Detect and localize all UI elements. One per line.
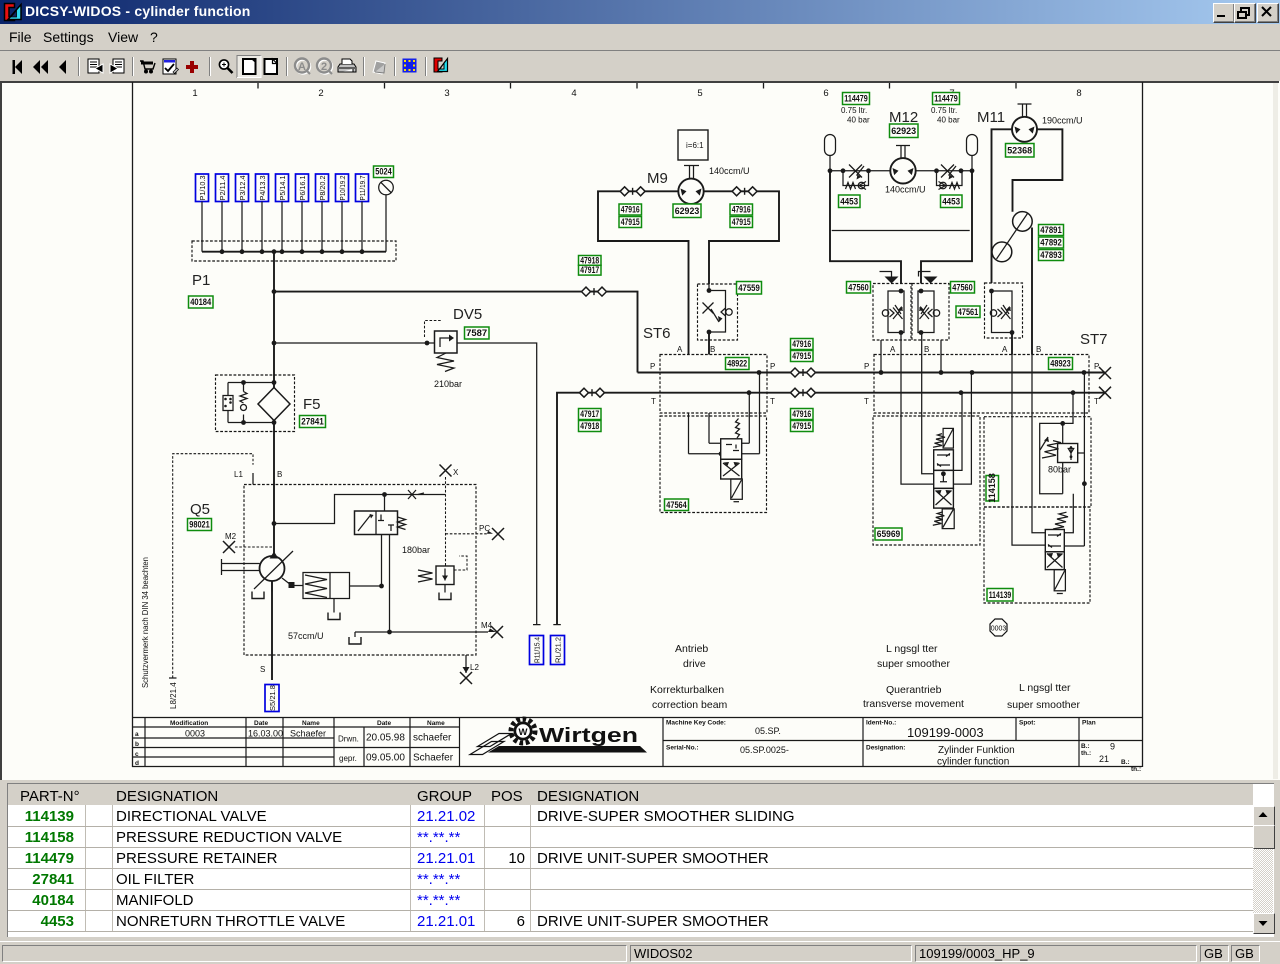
svg-text:d: d xyxy=(135,760,139,767)
directional valve 114139 xyxy=(984,355,1090,604)
port label P6/16.1 xyxy=(296,174,309,252)
solenoid xyxy=(731,479,743,499)
svg-text:80bar: 80bar xyxy=(1048,465,1071,475)
svg-text:6: 6 xyxy=(823,88,828,99)
check-throttle valve 47559 xyxy=(698,282,762,341)
svg-text:P1/10.3: P1/10.3 xyxy=(198,176,207,201)
svg-text:47893: 47893 xyxy=(1040,250,1062,260)
svg-text:47918: 47918 xyxy=(580,421,599,431)
nav prev2 xyxy=(33,60,40,74)
svg-text:Zylinder Funktion: Zylinder Funktion xyxy=(938,745,1015,756)
spring xyxy=(1053,512,1068,529)
svg-text:114479: 114479 xyxy=(934,94,958,104)
wire DV5 drain R11/15.4 xyxy=(457,343,544,665)
svg-text:P: P xyxy=(864,362,869,371)
spring xyxy=(736,419,740,439)
svg-text:48922: 48922 xyxy=(727,359,747,369)
svg-text:47560: 47560 xyxy=(952,282,973,292)
coupler 47916/47915 right xyxy=(732,187,757,196)
svg-text:Date: Date xyxy=(377,720,391,727)
svg-text:L ngsgl tter: L ngsgl tter xyxy=(1019,682,1071,694)
svg-text:P8/20.2: P8/20.2 xyxy=(318,176,327,201)
svg-text:47918: 47918 xyxy=(580,255,599,265)
wire pump feed vertical xyxy=(273,252,275,556)
svg-text:20.05.98: 20.05.98 xyxy=(366,733,405,744)
svg-text:210bar: 210bar xyxy=(434,379,462,389)
wire M9 A loop xyxy=(598,191,689,354)
function labels xyxy=(650,643,1080,711)
svg-text:P4/13.3: P4/13.3 xyxy=(258,176,267,201)
check-throttle 47560 left xyxy=(847,272,912,341)
svg-text:Plan: Plan xyxy=(1082,720,1096,727)
svg-text:M9: M9 xyxy=(647,170,668,187)
svg-text:47917: 47917 xyxy=(580,265,599,275)
svg-text:super smoother: super smoother xyxy=(1007,699,1080,711)
toolbar xyxy=(0,51,1280,81)
svg-text:Spot:: Spot: xyxy=(1019,720,1036,727)
column lines xyxy=(85,805,86,932)
svg-text:L1: L1 xyxy=(234,470,243,479)
motor M12 xyxy=(830,109,972,195)
check-throttle 47561 xyxy=(956,283,1023,355)
connection wires xyxy=(689,373,760,454)
svg-text:47559: 47559 xyxy=(738,283,760,293)
svg-text:Schutzvermerk nach DIN 34 beac: Schutzvermerk nach DIN 34 beachten xyxy=(140,557,150,688)
diagram canvas xyxy=(0,81,1280,780)
svg-text:1: 1 xyxy=(192,88,197,99)
svg-text:P: P xyxy=(770,362,775,371)
svg-text:47915: 47915 xyxy=(621,217,640,227)
svg-text:B: B xyxy=(924,345,929,354)
svg-text:B.:: B.: xyxy=(1081,743,1090,750)
svg-text:5: 5 xyxy=(697,88,702,99)
svg-text:62923: 62923 xyxy=(675,206,700,216)
svg-text:L2: L2 xyxy=(470,663,479,672)
svg-text:P3/12.4: P3/12.4 xyxy=(238,176,247,201)
svg-text:RL/21.2: RL/21.2 xyxy=(553,637,562,663)
svg-text:140ccm/U: 140ccm/U xyxy=(709,166,750,176)
svg-text:Serial-No.:: Serial-No.: xyxy=(666,745,699,752)
svg-text:4453: 4453 xyxy=(840,197,858,207)
sheet frame xyxy=(133,82,1143,767)
svg-text:16.03.00: 16.03.00 xyxy=(248,729,283,739)
wire M11 right xyxy=(1013,129,1063,212)
svg-text:0.75 ltr.: 0.75 ltr. xyxy=(931,106,957,115)
title block xyxy=(132,718,1142,767)
svg-text:schaefer: schaefer xyxy=(413,733,452,744)
page 2 xyxy=(265,59,278,74)
svg-text:A: A xyxy=(890,345,896,354)
svg-text:T: T xyxy=(864,397,869,406)
blue dotted square xyxy=(403,59,417,73)
accumulator 114479 right xyxy=(931,93,978,171)
accumulator 114479 left xyxy=(825,93,871,171)
svg-text:X: X xyxy=(453,468,459,477)
connection wires xyxy=(901,333,934,485)
valve body xyxy=(721,439,742,460)
svg-text:190ccm/U: 190ccm/U xyxy=(1042,116,1083,126)
svg-text:L8/21.4: L8/21.4 xyxy=(169,682,178,709)
menu bar xyxy=(0,24,1280,51)
svg-text:Date: Date xyxy=(254,720,268,727)
svg-text:40 bar: 40 bar xyxy=(937,116,960,125)
wire M9 B loop xyxy=(704,191,779,284)
svg-text:P1: P1 xyxy=(192,272,210,289)
svg-text:47891: 47891 xyxy=(1040,225,1062,235)
svg-text:B: B xyxy=(277,470,282,479)
svg-text:A: A xyxy=(677,345,683,354)
valve DV5 pressure relief xyxy=(272,306,489,389)
svg-text:M2: M2 xyxy=(225,532,237,541)
svg-text:47916: 47916 xyxy=(792,409,811,419)
svg-text:Designation:: Designation: xyxy=(866,745,905,752)
svg-text:Q5: Q5 xyxy=(190,501,210,518)
svg-text:S: S xyxy=(260,665,265,674)
dicsy logo small xyxy=(434,58,448,72)
filter F5 xyxy=(216,375,326,432)
svg-text:40 bar: 40 bar xyxy=(847,116,870,125)
port label P5/14.1 xyxy=(276,174,289,252)
svg-text:P5/14.1: P5/14.1 xyxy=(278,176,287,201)
svg-text:Querantrieb: Querantrieb xyxy=(886,684,942,696)
rows xyxy=(8,826,1253,827)
svg-text:P: P xyxy=(1094,362,1099,371)
svg-text:05.SP.0025-: 05.SP.0025- xyxy=(740,745,789,755)
doc back xyxy=(88,59,103,73)
throttle check valve 4453 right xyxy=(934,165,974,208)
svg-text:47915: 47915 xyxy=(792,351,811,361)
parts table xyxy=(0,780,1280,941)
svg-text:98021: 98021 xyxy=(189,520,210,530)
status bar xyxy=(0,941,1280,964)
svg-text:drive: drive xyxy=(683,658,706,670)
couplers right of ST6 47916/47915 xyxy=(791,339,816,432)
svg-text:48923: 48923 xyxy=(1050,359,1071,369)
svg-text:114479: 114479 xyxy=(844,94,868,104)
cable drum rollers xyxy=(1013,212,1033,232)
swash plate actuator xyxy=(282,578,291,585)
svg-text:52368: 52368 xyxy=(1007,146,1032,156)
pump Q5 xyxy=(188,465,505,712)
nav first xyxy=(13,60,16,74)
checklist xyxy=(163,59,179,74)
doc fwd xyxy=(110,59,124,73)
svg-text:47915: 47915 xyxy=(792,421,811,431)
valve outlet lines xyxy=(350,535,382,587)
svg-text:P: P xyxy=(650,362,655,371)
svg-text:PC: PC xyxy=(479,524,490,533)
pump case drain tank xyxy=(252,592,264,599)
svg-text:th.:: th.: xyxy=(1131,766,1141,773)
label P1 40184 xyxy=(189,272,214,308)
svg-text:M11: M11 xyxy=(977,109,1005,126)
port label P11/19.7 xyxy=(356,174,369,252)
svg-text:T: T xyxy=(1094,397,1099,406)
svg-text:0003: 0003 xyxy=(991,626,1007,633)
revision octagon 0003 xyxy=(990,619,1007,636)
svg-text:Name: Name xyxy=(302,720,320,727)
control valve 180bar xyxy=(355,511,398,535)
svg-text:4: 4 xyxy=(571,88,576,99)
svg-text:09.05.00: 09.05.00 xyxy=(366,753,405,764)
svg-text:47564: 47564 xyxy=(666,500,687,510)
2 circle gray xyxy=(317,59,332,75)
port S suction xyxy=(271,581,273,680)
svg-text:114158: 114158 xyxy=(987,473,997,503)
wire crossover xyxy=(832,230,970,232)
nav prev xyxy=(59,60,66,74)
svg-text:transverse movement: transverse movement xyxy=(863,698,964,710)
svg-text:4453: 4453 xyxy=(942,197,960,207)
svg-text:47916: 47916 xyxy=(621,205,640,215)
port label P8/20.2 xyxy=(316,174,329,252)
proportional valve 65969 xyxy=(873,333,980,546)
port label P10/19.2 xyxy=(336,174,349,252)
svg-text:Drwn.: Drwn. xyxy=(338,735,359,744)
svg-text:47561: 47561 xyxy=(958,307,979,317)
svg-text:114139: 114139 xyxy=(989,590,1012,600)
port label P3/12.4 xyxy=(236,174,249,252)
svg-text:8: 8 xyxy=(1076,88,1081,99)
coupler pair 47918/47917 xyxy=(579,255,607,296)
svg-text:S5/21.8: S5/21.8 xyxy=(268,685,277,711)
wire P supply to ST6 xyxy=(272,289,638,372)
svg-text:A: A xyxy=(1002,345,1008,354)
valve stack xyxy=(943,428,953,448)
svg-text:180bar: 180bar xyxy=(402,545,430,555)
svg-text:P6/16.1: P6/16.1 xyxy=(298,176,307,201)
svg-text:40184: 40184 xyxy=(190,297,211,307)
svg-text:Schaefer: Schaefer xyxy=(413,753,454,764)
svg-text:A: A xyxy=(298,61,306,73)
svg-text:correction beam: correction beam xyxy=(652,699,728,711)
svg-text:P11/19.7: P11/19.7 xyxy=(358,176,367,201)
svg-text:super smoother: super smoother xyxy=(877,658,950,670)
manifold ST7 48923 xyxy=(864,331,1108,413)
svg-text:T: T xyxy=(770,397,775,406)
svg-text:cylinder function: cylinder function xyxy=(937,757,1009,768)
svg-text:47916: 47916 xyxy=(732,205,751,215)
svg-text:47892: 47892 xyxy=(1040,238,1062,248)
svg-text:27841: 27841 xyxy=(301,417,324,427)
svg-text:0.75 ltr.: 0.75 ltr. xyxy=(841,106,867,115)
svg-text:Modification: Modification xyxy=(170,720,208,727)
svg-text:Antrieb: Antrieb xyxy=(675,643,708,655)
gearbox i=6:1 xyxy=(678,130,708,160)
svg-text:F5: F5 xyxy=(303,396,321,413)
port label P1/10.3 xyxy=(196,174,209,252)
svg-text:T: T xyxy=(651,397,656,406)
svg-text:i=6:1: i=6:1 xyxy=(686,141,704,150)
svg-text:W: W xyxy=(519,727,528,738)
svg-text:L ngsgl tter: L ngsgl tter xyxy=(886,643,938,655)
svg-text:21: 21 xyxy=(1099,754,1109,764)
svg-text:140ccm/U: 140ccm/U xyxy=(885,185,926,195)
port L2 xyxy=(465,655,467,673)
wire M11 left xyxy=(992,129,1013,283)
svg-text:47915: 47915 xyxy=(732,217,751,227)
svg-text:0003: 0003 xyxy=(185,729,205,739)
zoom xyxy=(219,60,232,73)
wire M12 B down xyxy=(921,171,972,284)
valve feed lines xyxy=(272,521,277,526)
check-throttle 47560 right xyxy=(912,272,975,341)
svg-text:3: 3 xyxy=(444,88,449,99)
svg-text:Schaefer: Schaefer xyxy=(290,729,326,739)
throttle check valve 4453 left xyxy=(828,165,871,208)
motor M11 xyxy=(977,104,1083,355)
port label P2/11.4 xyxy=(216,174,229,252)
svg-text:109199-0003: 109199-0003 xyxy=(907,725,984,740)
svg-text:Wirtgen: Wirtgen xyxy=(539,725,638,747)
port PC xyxy=(446,533,488,535)
svg-text:7587: 7587 xyxy=(466,328,487,338)
manifold ST6 48922 xyxy=(638,325,1112,413)
svg-text:M4: M4 xyxy=(481,621,493,630)
svg-text:ST7: ST7 xyxy=(1080,331,1108,348)
svg-text:9: 9 xyxy=(1110,742,1115,752)
port X xyxy=(440,465,452,477)
svg-text:a: a xyxy=(135,731,139,738)
gauge 5024 xyxy=(374,166,394,252)
svg-text:DV5: DV5 xyxy=(453,306,482,323)
coupler 47916/47915 left xyxy=(620,187,645,196)
svg-text:65969: 65969 xyxy=(877,529,901,539)
A circle gray xyxy=(295,59,310,75)
window inner border xyxy=(1,82,1279,780)
svg-text:05.SP.: 05.SP. xyxy=(755,726,781,736)
cart xyxy=(140,61,155,73)
scrollbar xyxy=(1253,806,1273,915)
pump rotary group xyxy=(260,556,285,581)
svg-text:b: b xyxy=(135,741,139,748)
svg-text:B: B xyxy=(1036,345,1041,354)
svg-text:47916: 47916 xyxy=(792,339,811,349)
svg-text:Machine Key Code:: Machine Key Code: xyxy=(666,720,726,727)
svg-text:57ccm/U: 57ccm/U xyxy=(288,631,324,641)
svg-text:B.:: B.: xyxy=(1121,759,1130,766)
pressed page button xyxy=(237,56,261,78)
svg-text:B: B xyxy=(710,345,715,354)
svg-text:ST6: ST6 xyxy=(643,325,671,342)
svg-text:P2/11.4: P2/11.4 xyxy=(218,176,227,201)
wire T return RL/21.2 xyxy=(551,388,1106,664)
svg-text:c: c xyxy=(135,751,139,758)
gray notes xyxy=(373,61,385,74)
svg-text:47917: 47917 xyxy=(580,409,599,419)
svg-text:Korrekturbalken: Korrekturbalken xyxy=(650,684,724,696)
svg-text:th.:: th.: xyxy=(1081,750,1091,757)
red plus xyxy=(186,61,198,73)
manifold P1 xyxy=(192,241,396,261)
svg-text:Ident-No.:: Ident-No.: xyxy=(866,720,896,727)
drain line L8/21.4 xyxy=(169,454,253,709)
pressure reducing valve 80bar 114158 xyxy=(984,373,1091,547)
svg-text:gepr.: gepr. xyxy=(339,754,357,763)
svg-text:47560: 47560 xyxy=(848,282,869,292)
svg-text:2: 2 xyxy=(318,88,323,99)
Wirtgen logo xyxy=(470,719,647,755)
directional valve 47564 xyxy=(660,373,767,513)
relief valve xyxy=(436,566,454,585)
svg-text:Name: Name xyxy=(427,720,445,727)
port M4 xyxy=(387,630,392,635)
wire M12 A down xyxy=(830,171,901,284)
motor M9 xyxy=(598,130,779,355)
drive shaft xyxy=(222,559,260,575)
svg-text:2: 2 xyxy=(321,61,327,73)
junction dots on P1 bus xyxy=(220,249,365,254)
port label P4/13.3 xyxy=(256,174,269,252)
svg-text:P10/19.2: P10/19.2 xyxy=(338,176,347,201)
title bar xyxy=(0,0,1280,24)
printer xyxy=(338,59,356,72)
coupler pair 47917/47918 on T xyxy=(579,409,602,432)
svg-text:5024: 5024 xyxy=(375,167,392,177)
svg-text:62923: 62923 xyxy=(891,126,916,136)
svg-text:R11/15.4: R11/15.4 xyxy=(532,637,541,663)
